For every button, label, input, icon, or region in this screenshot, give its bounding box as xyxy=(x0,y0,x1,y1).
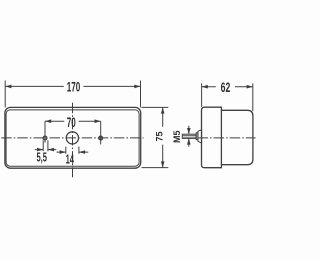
dimension 70: right extension down through stud xyxy=(100,121,102,144)
70 right arrow xyxy=(95,119,101,123)
front view vertical centerline xyxy=(72,103,74,177)
side view: lens section with rounded left corners xyxy=(202,107,222,168)
svg-text:5,5: 5,5 xyxy=(36,151,47,166)
svg-text:70: 70 xyxy=(67,116,76,131)
5,5 left arrow (points right) xyxy=(37,148,43,152)
front view horizontal centerline xyxy=(1,137,143,139)
dimension 62: dimension line with gap for text xyxy=(202,86,253,88)
dimension 62: left extension line xyxy=(201,83,203,107)
right mounting stud xyxy=(99,136,103,140)
svg-text:170: 170 xyxy=(67,80,81,95)
front view: lens inner rounded rectangle xyxy=(6,110,139,166)
5,5 right arrow (points left) xyxy=(48,148,54,152)
70 left arrow xyxy=(45,119,51,123)
svg-text:14: 14 xyxy=(66,153,74,168)
14 left arrow (points right) xyxy=(60,150,66,154)
side view horizontal centerline xyxy=(198,137,256,139)
dimension 5,5: extension lines from stud edges xyxy=(43,140,48,151)
front view: lamp outer body rounded rectangle xyxy=(5,107,141,168)
dimension 62: right extension line xyxy=(252,83,254,111)
center hole circle (diam 14) xyxy=(66,132,78,144)
M5 top arrow (points down to shaft) xyxy=(187,128,191,134)
62 right arrow xyxy=(247,85,253,89)
dimension 75: vertical dimension line with gap for text xyxy=(162,107,164,167)
dimension 14: extension lines from hole edges xyxy=(66,147,79,154)
M5 bottom arrow (points up to shaft) xyxy=(187,138,191,144)
170 left arrow xyxy=(5,85,11,89)
dimension M5: arrow lines above and below shaft xyxy=(188,126,190,147)
svg-text:75: 75 xyxy=(155,131,165,141)
M5 threaded stud shaft xyxy=(182,134,196,138)
stud flange small step xyxy=(196,133,198,140)
75 top arrow (points up) xyxy=(161,107,165,113)
dimension 70: left extension down through stud xyxy=(44,121,46,142)
stud thread core lines xyxy=(183,136,196,138)
svg-text:62: 62 xyxy=(221,80,231,96)
left mounting stud xyxy=(43,136,47,140)
dimension 5,5: arrow tails outside xyxy=(35,149,57,151)
dimension 75: top extension line xyxy=(142,106,169,108)
62 left arrow xyxy=(202,85,208,89)
dimension 170: dimension line with gap for text xyxy=(5,85,140,87)
dimension 170: left extension line xyxy=(4,81,6,108)
dimension 75: bottom extension line xyxy=(142,167,169,169)
dimension 70: dimension line with gap for text xyxy=(45,120,101,122)
75 bottom arrow (points down) xyxy=(161,161,165,167)
dimension 170: right extension line xyxy=(140,81,142,108)
170 right arrow xyxy=(134,85,140,89)
14 right arrow (points left) xyxy=(79,150,85,154)
stud flange cone xyxy=(198,130,202,143)
svg-text:M5: M5 xyxy=(172,131,182,144)
dimension 14: arrow tails outside xyxy=(57,151,89,153)
side view: housing section with rounded right corners xyxy=(221,110,253,164)
